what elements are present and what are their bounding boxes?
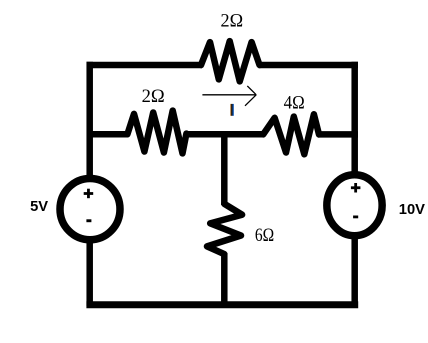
svg-text:6Ω: 6Ω xyxy=(255,225,274,246)
wire: left vertical segment from 5V source to bottom rail xyxy=(86,241,93,307)
V2 minus sign xyxy=(353,216,358,219)
V1 minus sign xyxy=(86,219,91,222)
resistor R2 2ohm (middle left) xyxy=(127,111,186,154)
voltage source V2 10V (circle) xyxy=(327,175,382,236)
wire: middle rail center section xyxy=(185,131,264,138)
label I (current) xyxy=(230,104,234,116)
svg-text:4Ω: 4Ω xyxy=(284,93,305,114)
wire: center vertical stub from 6ohm resistor to bottom rail xyxy=(221,253,228,306)
wire: top rail left section xyxy=(87,62,203,69)
wire: middle rail left section xyxy=(87,131,129,138)
wire: right vertical segment from top rail to 10V source xyxy=(351,62,358,174)
svg-text:5V: 5V xyxy=(30,198,48,215)
svg-text:2Ω: 2Ω xyxy=(142,86,165,107)
wire: top rail right section xyxy=(259,62,359,69)
current arrow head lower barb xyxy=(245,95,256,106)
svg-text:2Ω: 2Ω xyxy=(221,11,244,32)
resistor R3 4ohm (middle right) xyxy=(263,114,319,154)
wire: center vertical stub from middle rail to 6ohm resistor xyxy=(221,131,228,205)
svg-text:10V: 10V xyxy=(399,201,425,218)
wire: right vertical segment from 10V source to bottom rail xyxy=(351,237,358,306)
voltage source V1 5V (circle) xyxy=(60,178,120,239)
V2 plus sign xyxy=(351,183,361,193)
V1 plus sign xyxy=(84,189,94,199)
current arrow shaft xyxy=(202,94,256,96)
wire: left vertical segment from top rail to 5V source xyxy=(86,62,93,178)
wire: middle rail right section xyxy=(318,131,358,138)
resistor R4 6ohm (vertical) xyxy=(207,204,242,254)
wire: bottom rail xyxy=(86,301,358,308)
current arrow head upper barb xyxy=(247,86,256,95)
resistor R1 2ohm (top) xyxy=(201,41,260,81)
